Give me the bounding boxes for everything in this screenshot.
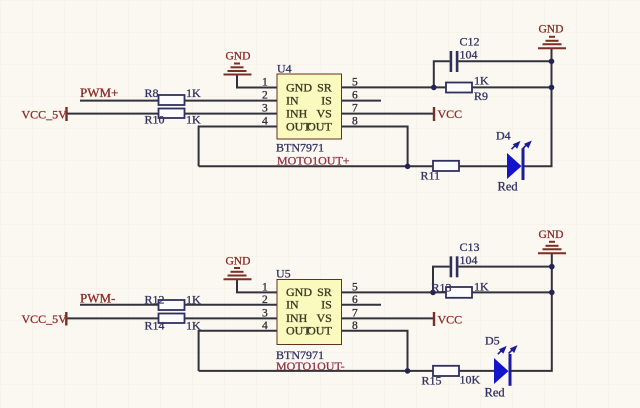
svg-text:4: 4 — [262, 320, 268, 332]
svg-text:R8: R8 — [145, 86, 159, 100]
svg-text:1: 1 — [262, 282, 268, 294]
svg-text:104: 104 — [460, 48, 478, 62]
svg-text:1K: 1K — [186, 86, 201, 100]
svg-text:IN: IN — [286, 93, 299, 107]
svg-text:D4: D4 — [496, 129, 511, 143]
svg-text:U4: U4 — [277, 61, 292, 75]
svg-text:VCC: VCC — [438, 313, 463, 327]
svg-text:R15: R15 — [422, 373, 442, 387]
svg-text:104: 104 — [460, 253, 478, 267]
svg-text:IS: IS — [321, 298, 332, 312]
svg-text:R14: R14 — [145, 319, 165, 333]
svg-text:OUT: OUT — [307, 324, 332, 338]
svg-text:8: 8 — [352, 116, 358, 128]
svg-text:C12: C12 — [460, 35, 480, 49]
svg-text:3: 3 — [262, 103, 268, 115]
svg-text:1K: 1K — [186, 319, 201, 333]
svg-text:PWM-: PWM- — [80, 290, 115, 305]
svg-text:GND: GND — [226, 255, 251, 267]
svg-text:R10: R10 — [145, 112, 165, 126]
svg-text:GND: GND — [539, 24, 564, 36]
svg-text:OUT: OUT — [307, 119, 332, 133]
svg-text:VCC_5V: VCC_5V — [22, 312, 68, 326]
svg-text:1K: 1K — [186, 292, 201, 306]
svg-text:2: 2 — [262, 294, 268, 306]
svg-text:R12: R12 — [145, 292, 165, 306]
svg-text:VCC_5V: VCC_5V — [22, 107, 68, 121]
svg-text:INH: INH — [286, 106, 308, 120]
svg-text:VCC: VCC — [438, 107, 463, 121]
svg-text:7: 7 — [352, 103, 358, 115]
svg-text:GND: GND — [539, 229, 564, 241]
svg-text:MOTO1OUT-: MOTO1OUT- — [276, 359, 345, 373]
svg-text:1K: 1K — [474, 279, 489, 293]
svg-text:10K: 10K — [460, 373, 481, 387]
svg-text:SR: SR — [317, 80, 332, 94]
svg-text:GND: GND — [226, 50, 251, 62]
svg-text:IN: IN — [286, 298, 299, 312]
svg-text:D5: D5 — [485, 333, 500, 347]
svg-text:Red: Red — [485, 385, 506, 399]
svg-text:MOTO1OUT+: MOTO1OUT+ — [277, 153, 350, 167]
svg-text:7: 7 — [352, 308, 358, 320]
svg-text:1: 1 — [262, 77, 268, 89]
svg-text:Red: Red — [498, 179, 519, 193]
svg-text:VS: VS — [316, 106, 331, 120]
svg-text:6: 6 — [352, 90, 358, 102]
svg-text:3: 3 — [262, 308, 268, 320]
svg-text:PWM+: PWM+ — [80, 85, 118, 100]
svg-text:R9: R9 — [474, 89, 488, 103]
svg-text:5: 5 — [352, 282, 358, 294]
svg-text:1K: 1K — [186, 112, 201, 126]
svg-text:2: 2 — [262, 90, 268, 102]
svg-text:1K: 1K — [474, 73, 489, 87]
svg-text:4: 4 — [262, 116, 268, 128]
svg-text:R11: R11 — [421, 168, 441, 182]
svg-text:6: 6 — [352, 294, 358, 306]
svg-text:5: 5 — [352, 77, 358, 89]
svg-text:GND: GND — [286, 80, 312, 94]
svg-text:U5: U5 — [276, 267, 291, 281]
svg-text:8: 8 — [352, 320, 358, 332]
svg-text:IS: IS — [321, 93, 332, 107]
svg-text:R13: R13 — [432, 280, 452, 294]
